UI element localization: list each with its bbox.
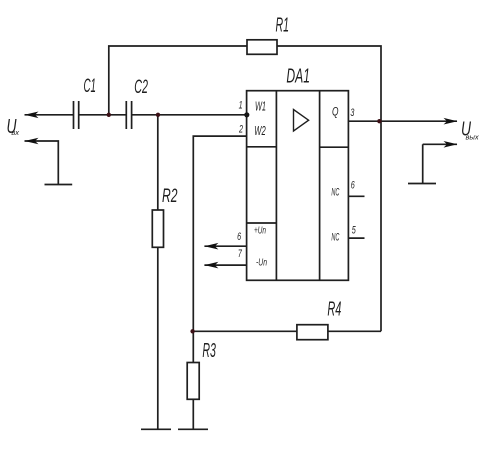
svg-text:R4: R4 <box>327 298 341 320</box>
svg-text:7: 7 <box>238 248 243 260</box>
svg-text:NC: NC <box>331 187 339 199</box>
svg-text:6: 6 <box>351 180 356 192</box>
svg-text:W1: W1 <box>255 99 266 114</box>
svg-text:вх: вх <box>11 128 19 137</box>
svg-text:1: 1 <box>239 100 243 112</box>
svg-text:R1: R1 <box>276 15 290 37</box>
svg-text:R3: R3 <box>202 340 216 362</box>
svg-text:вых: вых <box>466 133 479 142</box>
svg-text:C2: C2 <box>134 77 148 98</box>
svg-text:6: 6 <box>237 231 242 243</box>
svg-text:C1: C1 <box>84 76 97 97</box>
svg-text:R2: R2 <box>162 186 178 207</box>
svg-text:W2: W2 <box>254 123 266 138</box>
svg-text:2: 2 <box>238 124 243 136</box>
svg-text:Q: Q <box>332 105 339 119</box>
svg-text:+Un: +Un <box>254 225 266 237</box>
svg-text:NC: NC <box>331 231 339 243</box>
svg-text:5: 5 <box>352 224 357 236</box>
svg-text:-Un: -Un <box>256 257 267 269</box>
svg-text:DA1: DA1 <box>286 66 310 88</box>
svg-text:3: 3 <box>350 107 355 119</box>
